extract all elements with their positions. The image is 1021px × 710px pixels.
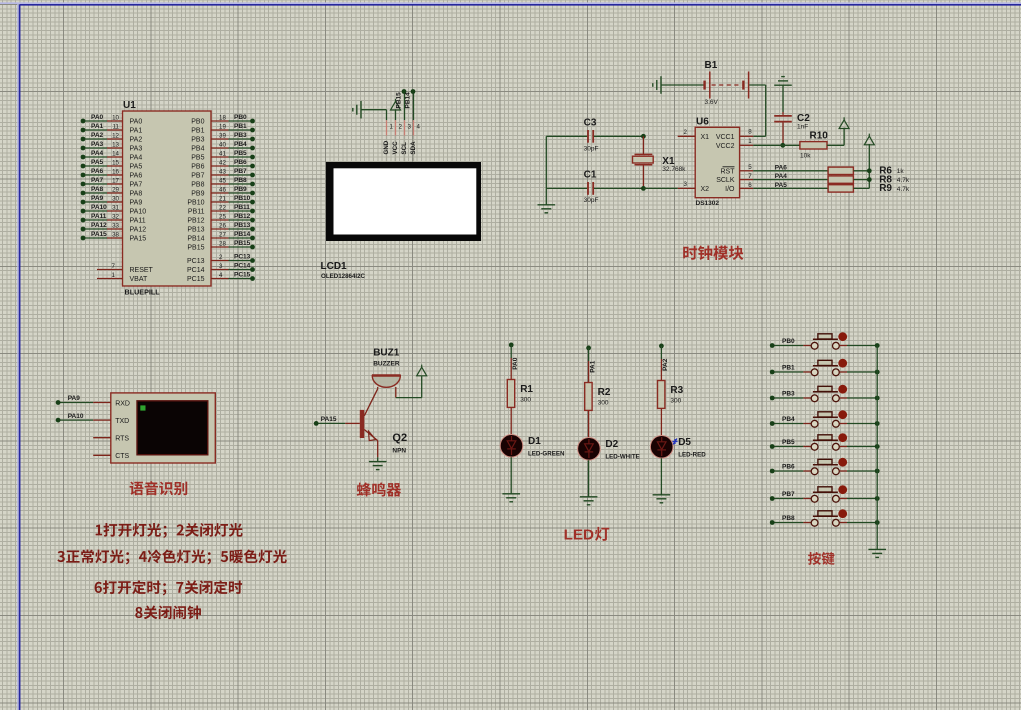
LED D1 LED-GREEN <box>500 407 565 457</box>
U1 pin 39 PB3 wire + terminal <box>191 132 255 143</box>
svg-text:PB11: PB11 <box>234 204 250 211</box>
svg-text:45: 45 <box>219 177 226 184</box>
svg-text:30pF: 30pF <box>584 146 599 153</box>
node PB14 (OLED SDA wire) <box>405 89 416 120</box>
svg-text:OLED12864I2C: OLED12864I2C <box>321 273 366 280</box>
svg-text:2: 2 <box>399 123 403 130</box>
U1 pin 13 PA3 wire + terminal <box>81 141 143 152</box>
sheet border top <box>0 2 1021 4</box>
wire OLED pin1 GND <box>386 110 388 121</box>
display LCD1 OLED12864I2C <box>321 162 482 280</box>
wire LED to ground <box>510 457 512 494</box>
svg-text:U6: U6 <box>696 116 709 127</box>
svg-text:2: 2 <box>219 254 223 261</box>
svg-text:3: 3 <box>408 123 412 130</box>
svg-text:PB15: PB15 <box>187 245 204 252</box>
svg-text:PA4: PA4 <box>130 155 143 162</box>
U1 pin 3 PC14 wire + terminal <box>187 263 255 274</box>
svg-text:PB8: PB8 <box>191 182 204 189</box>
svg-text:25: 25 <box>219 213 226 220</box>
svg-text:26: 26 <box>219 222 226 229</box>
U6 pin 5 RST wire PA6 <box>740 164 829 171</box>
svg-text:PB7: PB7 <box>782 491 795 498</box>
svg-text:GND: GND <box>383 140 390 154</box>
svg-text:1: 1 <box>748 138 752 145</box>
push button PB7 <box>770 485 880 502</box>
transistor Q2 NPN <box>360 387 407 455</box>
svg-text:10: 10 <box>112 114 119 121</box>
svg-text:1: 1 <box>390 123 394 130</box>
svg-text:18: 18 <box>219 114 226 121</box>
svg-text:R3: R3 <box>670 385 683 396</box>
svg-text:3.6V: 3.6V <box>705 99 719 106</box>
svg-text:PA0: PA0 <box>91 114 104 121</box>
svg-text:D5: D5 <box>678 437 691 448</box>
svg-text:28: 28 <box>219 240 226 247</box>
wires R6/R8/R9 to power <box>853 144 871 188</box>
svg-text:VCC2: VCC2 <box>716 143 735 150</box>
wire LED to ground <box>588 460 590 497</box>
svg-text:PB15: PB15 <box>234 240 251 247</box>
U1 pin 38 PA15 wire + terminal <box>81 231 147 242</box>
svg-text:42: 42 <box>219 159 226 166</box>
label 按键 <box>808 552 835 565</box>
U1 pin 28 PB15 wire + terminal <box>187 240 255 251</box>
svg-text:C1: C1 <box>584 170 597 181</box>
svg-text:NPN: NPN <box>392 448 406 455</box>
svg-text:PA1: PA1 <box>130 128 143 135</box>
label 语音识别 <box>130 481 188 495</box>
label 蜂鸣器 <box>357 482 401 496</box>
push button PB3 <box>770 385 880 402</box>
svg-text:33: 33 <box>112 222 119 229</box>
svg-text:4.7k: 4.7k <box>897 186 910 193</box>
U1 pin 1 VBAT <box>97 272 148 283</box>
microcontroller U1 (BLUEPILL) <box>123 100 212 297</box>
svg-text:11: 11 <box>113 123 120 130</box>
svg-text:X2: X2 <box>701 186 710 193</box>
svg-text:PB1: PB1 <box>782 364 795 371</box>
U1 pin 29 PA8 wire + terminal <box>81 186 143 197</box>
svg-text:22: 22 <box>219 204 226 211</box>
svg-text:PA5: PA5 <box>91 159 104 166</box>
svg-text:VCC1: VCC1 <box>716 134 735 141</box>
sheet border left <box>17 3 19 710</box>
U1 pin 30 PA9 wire + terminal <box>81 195 143 206</box>
push button PB5 <box>770 433 880 450</box>
U1 pin 27 PB14 wire + terminal <box>187 231 255 242</box>
instructions line 2 <box>57 549 286 564</box>
CTS stub <box>93 454 111 456</box>
U1 pin 14 PA4 wire + terminal <box>81 150 143 161</box>
wire battery to VCC1 <box>749 85 765 136</box>
svg-text:300: 300 <box>520 397 531 404</box>
U6 pin 1 VCC2 + wire to R10 <box>740 138 800 146</box>
svg-text:PB5: PB5 <box>234 150 247 157</box>
svg-text:PA0: PA0 <box>130 119 143 126</box>
svg-text:RXD: RXD <box>115 400 130 407</box>
svg-text:PB7: PB7 <box>191 173 204 180</box>
svg-text:PA9: PA9 <box>91 195 104 202</box>
svg-text:PB3: PB3 <box>782 390 795 397</box>
svg-text:PB4: PB4 <box>191 146 204 153</box>
label 时钟模块 <box>683 246 743 261</box>
svg-text:29: 29 <box>112 186 119 193</box>
svg-text:13: 13 <box>112 141 119 148</box>
U1 pin 17 PA7 wire + terminal <box>81 177 143 188</box>
svg-text:PA9: PA9 <box>68 395 81 402</box>
ground (emitter) <box>369 462 387 470</box>
svg-text:D2: D2 <box>605 439 618 450</box>
resistor R10 10k <box>800 131 828 160</box>
svg-text:PB6: PB6 <box>782 463 795 470</box>
U1 pin 33 PA12 wire + terminal <box>81 222 147 233</box>
push button PB4 <box>770 410 880 427</box>
svg-text:30pF: 30pF <box>584 197 599 204</box>
svg-text:PB5: PB5 <box>191 155 204 162</box>
svg-text:6: 6 <box>748 182 752 189</box>
U1 pin 12 PA2 wire + terminal <box>81 132 143 143</box>
svg-text:BLUEPILL: BLUEPILL <box>125 288 161 297</box>
node PA2 terminal <box>659 344 669 371</box>
svg-text:30: 30 <box>112 195 119 202</box>
U1 pin 40 PB4 wire + terminal <box>191 141 255 152</box>
svg-text:4.7k: 4.7k <box>897 177 910 184</box>
svg-text:PB11: PB11 <box>188 209 205 216</box>
svg-text:7: 7 <box>112 263 116 270</box>
svg-text:PB14: PB14 <box>234 231 251 238</box>
svg-text:PB8: PB8 <box>234 177 247 184</box>
svg-text:PB15: PB15 <box>396 92 403 109</box>
svg-text:R1: R1 <box>520 384 533 395</box>
svg-text:PC15: PC15 <box>187 276 205 283</box>
svg-text:BUZZER: BUZZER <box>373 360 400 367</box>
svg-text:2: 2 <box>684 129 688 136</box>
svg-text:1nF: 1nF <box>797 124 808 131</box>
IC U6 DS1302 <box>695 116 739 207</box>
ground (OLED GND pin) <box>353 101 387 119</box>
svg-text:PA7: PA7 <box>130 182 143 189</box>
power terminal (OLED VCC) <box>391 99 401 120</box>
svg-text:TXD: TXD <box>115 418 129 425</box>
svg-text:PB12: PB12 <box>234 213 251 220</box>
U1 pin 11 PA1 wire + terminal <box>81 123 143 134</box>
svg-text:PA5: PA5 <box>130 164 143 171</box>
wire PA9 to RXD <box>56 395 111 405</box>
svg-text:PB4: PB4 <box>234 141 247 148</box>
battery B1 3.6V <box>653 60 749 106</box>
push button PB0 <box>770 332 880 349</box>
capacitor C1 30pF <box>546 170 643 205</box>
svg-text:DS1302: DS1302 <box>696 200 720 207</box>
svg-text:U1: U1 <box>123 100 136 111</box>
svg-text:PA11: PA11 <box>130 218 146 225</box>
svg-text:R10: R10 <box>810 131 829 142</box>
svg-text:46: 46 <box>219 186 226 193</box>
U1 pin 43 PB7 wire + terminal <box>191 168 255 179</box>
svg-text:40: 40 <box>219 141 226 148</box>
svg-text:5: 5 <box>748 164 752 171</box>
svg-text:C2: C2 <box>797 113 810 124</box>
svg-text:BUZ1: BUZ1 <box>373 348 400 359</box>
wire button bus <box>876 346 878 550</box>
svg-text:PA7: PA7 <box>91 177 104 184</box>
svg-text:14: 14 <box>112 150 119 157</box>
svg-text:1k: 1k <box>897 168 905 175</box>
svg-text:PC13: PC13 <box>234 254 251 261</box>
svg-text:8: 8 <box>748 129 752 136</box>
U1 pin 19 PB1 wire + terminal <box>191 123 255 134</box>
svg-text:PA12: PA12 <box>130 227 147 234</box>
svg-text:PB8: PB8 <box>782 515 795 522</box>
svg-text:PC15: PC15 <box>234 272 251 279</box>
svg-text:PC14: PC14 <box>234 263 251 270</box>
svg-text:32: 32 <box>112 213 119 220</box>
U1 pin 21 PB10 wire + terminal <box>187 195 255 206</box>
wire emitter to ground <box>377 441 379 462</box>
ground <box>502 494 520 502</box>
capacitor C3 30pF <box>546 118 643 153</box>
power terminal (buzzer) <box>417 365 427 376</box>
resistor R8 4.7k <box>828 174 910 185</box>
U1 pin 4 PC15 wire + terminal <box>187 272 255 283</box>
svg-text:PB0: PB0 <box>782 338 795 345</box>
U6 pin 3 X2 stub <box>643 181 695 189</box>
svg-text:38: 38 <box>112 231 119 238</box>
U1 pin 7 RESET <box>97 263 154 274</box>
svg-text:4: 4 <box>417 123 421 130</box>
ground <box>580 497 598 505</box>
U1 pin 42 PB6 wire + terminal <box>191 159 255 170</box>
push button PB8 <box>770 509 880 526</box>
svg-text:3: 3 <box>219 263 223 270</box>
svg-text:SDA: SDA <box>410 141 417 155</box>
svg-text:PA10: PA10 <box>91 204 107 211</box>
instructions line 3 <box>95 580 242 595</box>
wire R10 to power <box>827 128 844 146</box>
svg-text:PB13: PB13 <box>234 222 251 229</box>
svg-text:19: 19 <box>219 123 226 130</box>
node C2/VCC2 junction <box>780 143 785 148</box>
U1 pin 41 PB5 wire + terminal <box>191 150 255 161</box>
svg-text:43: 43 <box>219 168 226 175</box>
svg-text:15: 15 <box>112 159 119 166</box>
svg-text:300: 300 <box>670 398 681 405</box>
svg-text:PC14: PC14 <box>187 267 205 274</box>
LED D5 LED-RED <box>650 408 706 458</box>
U1 pin 2 PC13 wire + terminal <box>187 254 255 265</box>
svg-text:PA3: PA3 <box>91 141 104 148</box>
svg-text:17: 17 <box>112 177 119 184</box>
U1 pin 46 PB9 wire + terminal <box>191 186 255 197</box>
wire buzzer to power <box>396 376 422 397</box>
svg-text:PA15: PA15 <box>91 231 107 238</box>
svg-text:PA9: PA9 <box>130 200 143 207</box>
voice recognition module <box>111 393 216 463</box>
svg-text:RST: RST <box>721 168 736 175</box>
LED D2 LED-WHITE <box>578 410 640 460</box>
push button PB6 <box>770 458 880 475</box>
svg-text:PC13: PC13 <box>187 258 205 265</box>
node PA1 terminal <box>586 346 596 373</box>
svg-text:PA8: PA8 <box>130 191 143 198</box>
U1 pin 16 PA6 wire + terminal <box>81 168 143 179</box>
svg-text:300: 300 <box>598 400 609 407</box>
OLED pin stubs + numbers <box>383 120 421 162</box>
svg-text:PA4: PA4 <box>775 173 788 180</box>
svg-text:PB0: PB0 <box>234 114 247 121</box>
svg-text:PA2: PA2 <box>130 137 143 144</box>
push button PB1 <box>770 359 880 376</box>
svg-text:PB6: PB6 <box>234 159 247 166</box>
svg-text:PB3: PB3 <box>234 132 247 139</box>
resistor R1 300 <box>507 358 533 407</box>
svg-text:PA6: PA6 <box>91 168 104 175</box>
svg-text:RTS: RTS <box>115 436 129 443</box>
svg-text:PB14: PB14 <box>405 92 412 109</box>
svg-text:D1: D1 <box>528 436 541 447</box>
svg-text:10k: 10k <box>800 152 811 159</box>
svg-text:PA0: PA0 <box>512 357 519 370</box>
wire PA10 to TXD <box>56 413 111 423</box>
node PA0 terminal <box>509 343 519 370</box>
svg-text:PA10: PA10 <box>130 209 147 216</box>
svg-text:PB0: PB0 <box>191 119 204 126</box>
resistor R6 1k <box>828 166 904 177</box>
svg-text:VBAT: VBAT <box>130 276 148 283</box>
svg-text:PA4: PA4 <box>91 150 104 157</box>
wire PA15 to base <box>314 416 360 426</box>
svg-text:R9: R9 <box>879 183 892 194</box>
svg-text:LED-WHITE: LED-WHITE <box>605 453 639 460</box>
svg-text:PB13: PB13 <box>187 227 204 234</box>
U1 pin 18 PB0 wire + terminal <box>191 114 255 125</box>
svg-text:7: 7 <box>748 173 752 180</box>
resistor R2 300 <box>585 361 611 410</box>
svg-text:PA10: PA10 <box>68 413 84 420</box>
svg-text:VCC: VCC <box>392 141 399 155</box>
resistor R3 300 <box>658 359 684 408</box>
instructions line 4 <box>135 606 201 620</box>
svg-text:SCL: SCL <box>401 142 408 155</box>
svg-text:PA6: PA6 <box>130 173 143 180</box>
svg-text:PB5: PB5 <box>782 439 795 446</box>
svg-text:LED-RED: LED-RED <box>678 451 706 458</box>
svg-text:27: 27 <box>219 231 226 238</box>
svg-text:PB9: PB9 <box>234 186 247 193</box>
svg-text:PA8: PA8 <box>91 186 104 193</box>
svg-text:PB10: PB10 <box>187 200 204 207</box>
U6 pin 7 SCLK wire PA4 <box>740 173 829 180</box>
svg-text:PB12: PB12 <box>187 218 204 225</box>
svg-text:PA1: PA1 <box>589 360 596 373</box>
U1 pin 10 PA0 wire + terminal <box>81 114 143 125</box>
svg-text:Q2: Q2 <box>392 432 407 444</box>
svg-text:C3: C3 <box>584 118 597 129</box>
svg-text:1: 1 <box>112 272 116 279</box>
svg-text:3: 3 <box>684 181 688 188</box>
svg-text:PB10: PB10 <box>234 195 251 202</box>
svg-text:RESET: RESET <box>130 267 154 274</box>
svg-text:39: 39 <box>219 132 226 139</box>
svg-text:PB14: PB14 <box>187 236 204 243</box>
U6 pin 6 I/O wire PA5 <box>740 182 829 189</box>
U1 pin 45 PB8 wire + terminal <box>191 177 255 188</box>
U1 pin 31 PA10 wire + terminal <box>81 204 147 215</box>
svg-text:PB9: PB9 <box>191 191 204 198</box>
RTS stub <box>93 437 111 439</box>
svg-text:32.768k: 32.768k <box>662 166 686 173</box>
svg-text:PA6: PA6 <box>775 164 788 171</box>
svg-text:PB6: PB6 <box>191 164 204 171</box>
U1 pin 26 PB13 wire + terminal <box>187 222 255 233</box>
svg-text:PA15: PA15 <box>130 236 147 243</box>
instructions line 1 <box>96 523 243 538</box>
U6 pin 8 VCC1 stub <box>740 129 754 137</box>
U1 pin 25 PB12 wire + terminal <box>187 213 255 224</box>
crystal X1 32.768k <box>633 134 687 191</box>
svg-text:PB1: PB1 <box>234 123 247 130</box>
svg-text:PA3: PA3 <box>130 146 143 153</box>
U6 pin 2 X1 stub <box>678 129 696 137</box>
ground (button bus) <box>868 549 886 557</box>
svg-text:PA2: PA2 <box>91 132 104 139</box>
wire LED to ground <box>660 458 662 495</box>
svg-text:4: 4 <box>219 272 223 279</box>
svg-text:PA2: PA2 <box>662 358 669 371</box>
U1 pin 22 PB11 wire + terminal <box>188 204 255 215</box>
blue marker at D5 <box>673 439 678 445</box>
power terminal above R6/R8/R9 <box>864 134 874 145</box>
svg-text:LED: LED <box>564 527 594 544</box>
svg-text:31: 31 <box>112 204 119 211</box>
node PB15 (OLED SCL wire) <box>396 89 407 120</box>
svg-text:41: 41 <box>219 150 226 157</box>
ground <box>653 495 671 503</box>
svg-text:CTS: CTS <box>115 453 129 460</box>
svg-text:PA5: PA5 <box>775 182 788 189</box>
svg-text:X1: X1 <box>701 134 710 141</box>
svg-text:LED-GREEN: LED-GREEN <box>528 450 565 457</box>
U1 pin 32 PA11 wire + terminal <box>81 213 146 224</box>
svg-text:12: 12 <box>112 132 119 139</box>
svg-text:PB3: PB3 <box>191 137 204 144</box>
svg-text:PA11: PA11 <box>91 213 107 220</box>
resistor R9 4.7k <box>828 183 910 194</box>
U1 pin 15 PA5 wire + terminal <box>81 159 143 170</box>
svg-text:PB7: PB7 <box>234 168 247 175</box>
svg-text:R2: R2 <box>598 387 611 398</box>
svg-text:I/O: I/O <box>725 186 735 193</box>
svg-text:PB1: PB1 <box>191 128 204 135</box>
svg-text:B1: B1 <box>705 60 718 71</box>
svg-text:LCD1: LCD1 <box>321 261 348 272</box>
svg-text:16: 16 <box>112 168 119 175</box>
label LED灯 <box>564 527 610 544</box>
svg-text:PB4: PB4 <box>782 416 795 423</box>
svg-text:21: 21 <box>219 195 226 202</box>
wire caps left + ground <box>538 136 556 213</box>
buzzer BUZ1 <box>372 348 401 388</box>
svg-text:PA15: PA15 <box>321 416 337 423</box>
svg-text:SCLK: SCLK <box>716 177 735 184</box>
svg-text:PA1: PA1 <box>91 123 104 130</box>
power terminal right of R10 <box>839 117 849 128</box>
svg-text:PA12: PA12 <box>91 222 107 229</box>
capacitor C2 1nF <box>774 77 810 146</box>
